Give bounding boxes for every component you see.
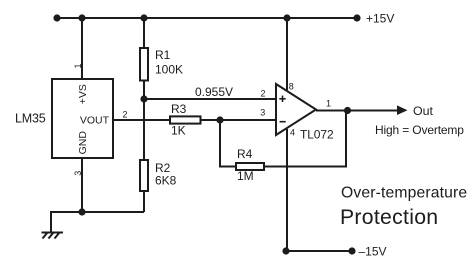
svg-text:R3: R3: [171, 102, 187, 116]
output arrow: [397, 105, 408, 115]
node terminal left: [53, 14, 60, 21]
node LM35 supply: [78, 14, 85, 21]
node op-amp V+: [283, 14, 290, 21]
node R3/R4 junction: [216, 116, 223, 123]
svg-text:6K8: 6K8: [155, 174, 177, 188]
wire: [81, 18, 83, 79]
node divider 0.955V: [140, 95, 147, 102]
wire: [143, 81, 145, 161]
svg-text:R4: R4: [237, 147, 253, 161]
resistor R3: [170, 102, 201, 138]
svg-text:3: 3: [73, 171, 83, 176]
wire: [51, 212, 144, 232]
node output junction: [344, 107, 351, 114]
wire: [143, 18, 145, 48]
svg-text:4: 4: [290, 128, 295, 138]
wire: [114, 119, 171, 121]
svg-text:R1: R1: [155, 48, 171, 62]
svg-text:GND: GND: [77, 131, 89, 155]
svg-text:–15V: –15V: [359, 245, 387, 259]
ground: [42, 233, 64, 239]
svg-text:1: 1: [73, 63, 83, 68]
svg-text:1M: 1M: [237, 169, 254, 183]
wire: [144, 98, 276, 100]
svg-text:Protection: Protection: [340, 206, 438, 229]
svg-text:Out: Out: [413, 104, 434, 118]
op-amp U1 TL072: [276, 84, 334, 142]
wire: [264, 111, 346, 167]
wire: [143, 191, 145, 212]
svg-text:+15V: +15V: [366, 12, 394, 26]
svg-text:VOUT: VOUT: [80, 115, 110, 127]
node ground junction: [78, 208, 85, 215]
resistor R4: [236, 147, 264, 183]
node +15V terminal: [353, 14, 360, 21]
svg-text:+VS: +VS: [77, 84, 89, 104]
node R1 top: [140, 14, 147, 21]
svg-text:2: 2: [123, 110, 128, 120]
svg-text:0.955V: 0.955V: [195, 85, 233, 99]
svg-text:100K: 100K: [155, 63, 183, 77]
svg-text:1K: 1K: [171, 124, 186, 138]
svg-text:8: 8: [289, 82, 294, 92]
svg-text:LM35: LM35: [15, 112, 46, 126]
svg-text:1: 1: [326, 99, 331, 109]
wire: [316, 110, 398, 112]
svg-text:Over-temperature: Over-temperature: [341, 185, 467, 202]
svg-text:TL072: TL072: [300, 128, 334, 142]
svg-text:3: 3: [260, 108, 265, 118]
wire: [220, 120, 236, 167]
wire: [286, 250, 352, 252]
node V- left: [282, 247, 289, 254]
svg-text:2: 2: [261, 89, 266, 99]
resistor R1: [140, 48, 183, 81]
wire: [201, 119, 277, 121]
sensor LM35: [15, 79, 113, 158]
wire: [57, 17, 357, 19]
node -15V terminal: [348, 247, 355, 254]
resistor R2: [140, 160, 177, 191]
wire: [81, 158, 83, 212]
wire: [286, 18, 288, 90]
wire: [286, 129, 288, 251]
svg-text:High = Overtemp: High = Overtemp: [375, 123, 464, 137]
